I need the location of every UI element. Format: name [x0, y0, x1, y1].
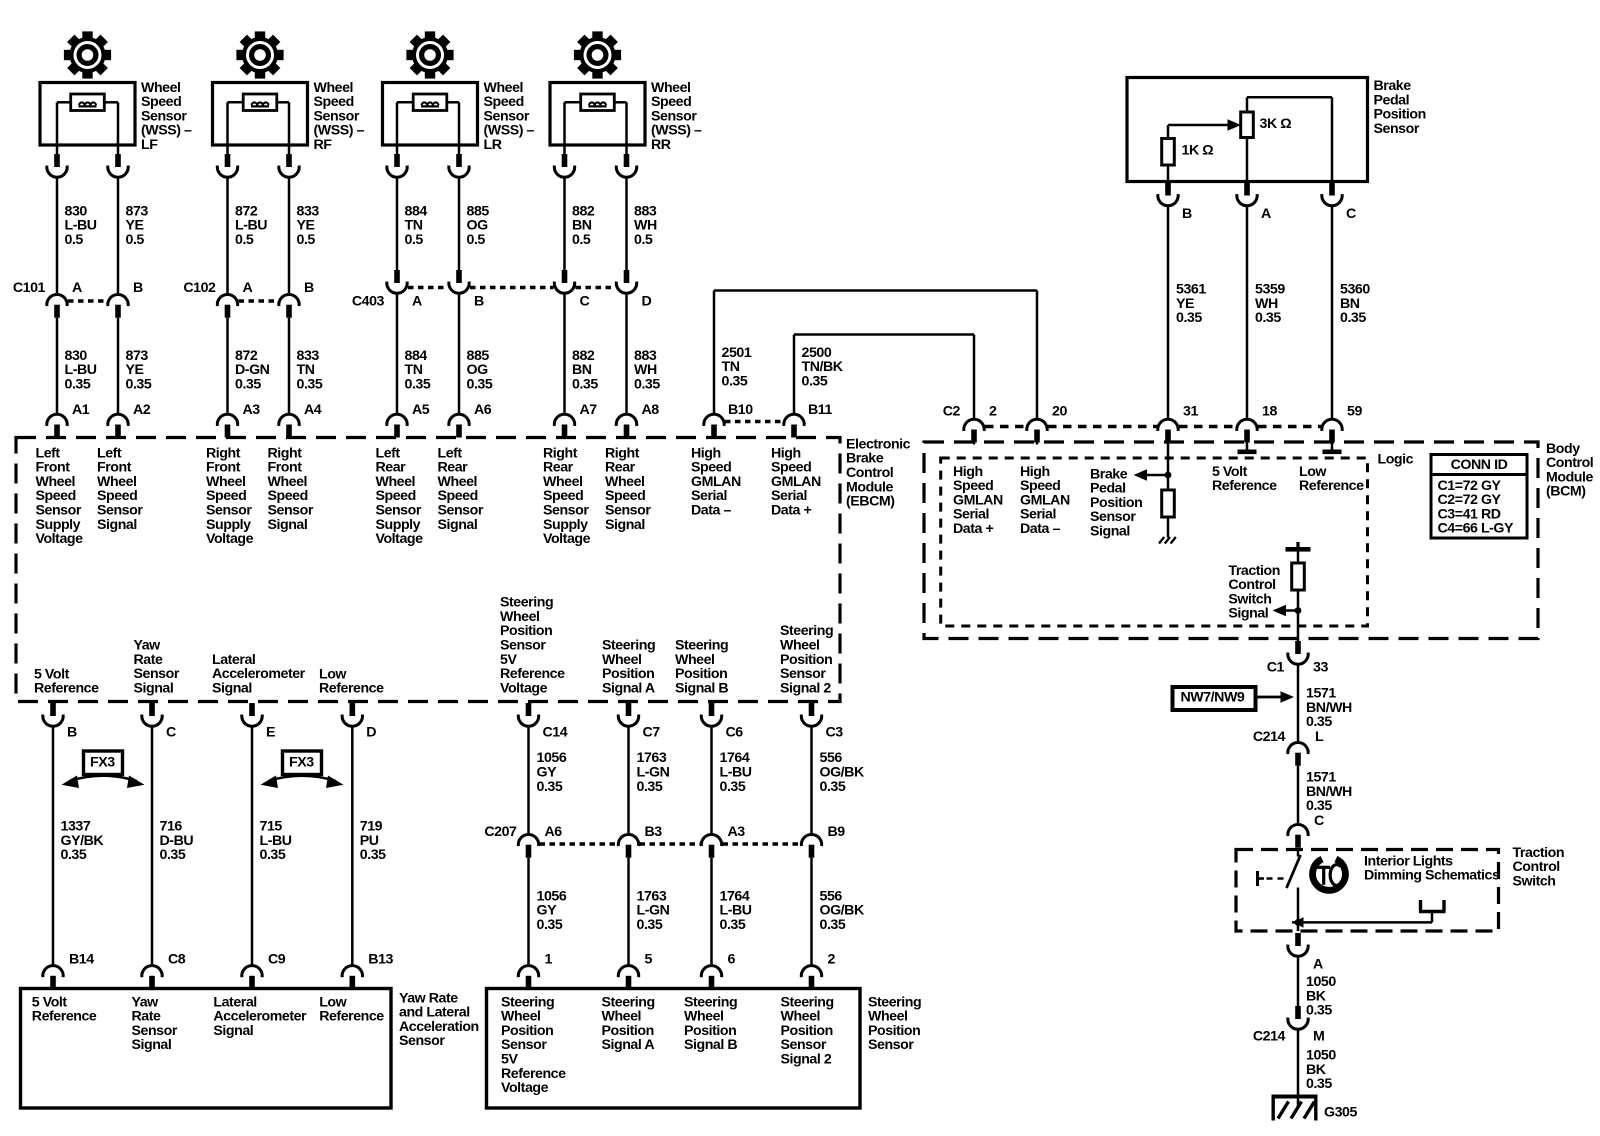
svg-text:Voltage: Voltage: [206, 531, 254, 547]
svg-text:C14: C14: [543, 724, 568, 740]
svg-text:A7: A7: [580, 402, 598, 418]
svg-text:B10: B10: [728, 402, 753, 418]
svg-text:M: M: [1313, 1029, 1324, 1045]
svg-text:A6: A6: [474, 402, 492, 418]
svg-text:Switch: Switch: [1513, 873, 1556, 889]
svg-text:Data +: Data +: [771, 503, 811, 519]
svg-text:0.35: 0.35: [1306, 714, 1332, 730]
svg-text:A6: A6: [545, 824, 563, 840]
svg-text:33: 33: [1313, 660, 1328, 676]
svg-text:20: 20: [1052, 403, 1067, 419]
svg-text:0.35: 0.35: [720, 779, 746, 795]
svg-text:Voltage: Voltage: [543, 531, 591, 547]
svg-text:A8: A8: [642, 402, 660, 418]
svg-text:0.35: 0.35: [360, 847, 386, 863]
svg-text:Signal: Signal: [438, 517, 478, 533]
svg-text:E: E: [266, 724, 275, 740]
svg-text:C1: C1: [1267, 660, 1285, 676]
svg-text:0.5: 0.5: [65, 232, 84, 248]
svg-text:C6: C6: [726, 724, 744, 740]
svg-text:C403: C403: [352, 293, 385, 309]
svg-text:B: B: [67, 724, 77, 740]
svg-text:Reference: Reference: [32, 1009, 97, 1025]
svg-text:0.35: 0.35: [61, 847, 87, 863]
svg-text:Data +: Data +: [953, 521, 993, 537]
svg-text:0.5: 0.5: [235, 232, 254, 248]
svg-text:B13: B13: [368, 951, 393, 967]
svg-text:0.35: 0.35: [722, 373, 748, 389]
svg-text:Signal: Signal: [605, 517, 645, 533]
svg-text:FX3: FX3: [90, 754, 115, 770]
svg-text:B: B: [304, 280, 314, 296]
svg-text:CONN ID: CONN ID: [1451, 457, 1508, 473]
svg-text:A5: A5: [412, 402, 430, 418]
svg-text:0.35: 0.35: [405, 376, 431, 392]
svg-text:Signal A: Signal A: [602, 1037, 655, 1053]
svg-text:A3: A3: [728, 824, 746, 840]
svg-text:C8: C8: [168, 951, 186, 967]
svg-text:(EBCM): (EBCM): [846, 494, 895, 510]
svg-text:C101: C101: [13, 280, 46, 296]
svg-text:0.5: 0.5: [634, 232, 653, 248]
svg-text:RR: RR: [651, 137, 671, 153]
svg-text:A3: A3: [243, 402, 261, 418]
svg-text:Logic: Logic: [1378, 451, 1414, 467]
svg-text:Voltage: Voltage: [500, 680, 548, 696]
svg-text:59: 59: [1347, 403, 1362, 419]
svg-text:0.35: 0.35: [820, 917, 846, 933]
svg-text:0.35: 0.35: [1255, 310, 1281, 326]
svg-text:C: C: [580, 293, 590, 309]
svg-text:C7: C7: [643, 724, 661, 740]
svg-text:0.35: 0.35: [537, 917, 563, 933]
svg-text:Data –: Data –: [1020, 521, 1060, 537]
svg-text:A: A: [243, 280, 253, 296]
svg-text:C207: C207: [484, 824, 517, 840]
svg-text:Signal 2: Signal 2: [780, 680, 831, 696]
svg-text:Reference: Reference: [34, 681, 99, 697]
svg-text:B: B: [474, 293, 484, 309]
svg-text:0.5: 0.5: [405, 232, 424, 248]
svg-text:0.35: 0.35: [1340, 310, 1366, 326]
svg-text:0.5: 0.5: [297, 232, 316, 248]
svg-text:Voltage: Voltage: [501, 1080, 549, 1096]
svg-text:C2: C2: [943, 403, 961, 419]
svg-text:Reference: Reference: [319, 681, 384, 697]
svg-text:NW7/NW9: NW7/NW9: [1181, 690, 1245, 706]
svg-text:Signal B: Signal B: [675, 680, 728, 696]
svg-text:B: B: [133, 280, 143, 296]
svg-text:Dimming Schematics: Dimming Schematics: [1364, 868, 1500, 884]
svg-text:B3: B3: [645, 824, 663, 840]
svg-text:Reference: Reference: [1212, 478, 1277, 494]
svg-text:31: 31: [1183, 403, 1198, 419]
svg-text:Voltage: Voltage: [36, 531, 84, 547]
svg-text:Signal: Signal: [268, 517, 308, 533]
svg-text:C4=66 L-GY: C4=66 L-GY: [1438, 521, 1515, 537]
svg-text:Sensor: Sensor: [399, 1033, 445, 1049]
svg-text:0.35: 0.35: [126, 376, 152, 392]
svg-text:Signal 2: Signal 2: [781, 1052, 832, 1068]
svg-text:0.35: 0.35: [820, 779, 846, 795]
svg-text:0.35: 0.35: [1306, 798, 1332, 814]
svg-text:Signal: Signal: [97, 517, 137, 533]
svg-text:D: D: [366, 724, 376, 740]
svg-text:0.35: 0.35: [637, 779, 663, 795]
svg-text:C102: C102: [183, 280, 216, 296]
svg-text:0.35: 0.35: [260, 847, 286, 863]
svg-text:L: L: [1315, 729, 1324, 745]
svg-text:2: 2: [989, 403, 997, 419]
svg-text:0.35: 0.35: [65, 376, 91, 392]
svg-text:C9: C9: [268, 951, 286, 967]
svg-text:B14: B14: [69, 951, 94, 967]
svg-text:0.35: 0.35: [1176, 310, 1202, 326]
svg-text:A: A: [412, 293, 422, 309]
svg-text:0.35: 0.35: [160, 847, 186, 863]
svg-text:5: 5: [645, 951, 653, 967]
svg-text:0.35: 0.35: [637, 917, 663, 933]
svg-text:6: 6: [728, 951, 736, 967]
svg-text:RF: RF: [314, 137, 333, 153]
svg-text:0.35: 0.35: [1306, 1076, 1332, 1092]
svg-text:C214: C214: [1253, 1029, 1286, 1045]
svg-text:Signal B: Signal B: [684, 1037, 737, 1053]
svg-text:Data –: Data –: [691, 503, 731, 519]
svg-text:C: C: [166, 724, 176, 740]
svg-text:0.5: 0.5: [572, 232, 591, 248]
svg-text:FX3: FX3: [289, 754, 314, 770]
svg-text:Signal: Signal: [134, 680, 174, 696]
svg-text:C3: C3: [826, 724, 844, 740]
svg-text:Signal: Signal: [1228, 606, 1268, 622]
svg-text:0.35: 0.35: [634, 376, 660, 392]
svg-text:0.5: 0.5: [126, 232, 145, 248]
svg-text:0.35: 0.35: [572, 376, 598, 392]
svg-text:G305: G305: [1324, 1105, 1357, 1121]
svg-text:0.35: 0.35: [720, 917, 746, 933]
svg-text:D: D: [642, 293, 652, 309]
svg-text:Voltage: Voltage: [376, 531, 424, 547]
svg-text:Sensor: Sensor: [1374, 121, 1420, 137]
svg-text:Reference: Reference: [319, 1009, 384, 1025]
svg-text:Signal: Signal: [1090, 524, 1130, 540]
svg-text:(BCM): (BCM): [1546, 484, 1586, 500]
svg-text:Signal: Signal: [212, 680, 252, 696]
svg-text:0.35: 0.35: [297, 376, 323, 392]
svg-text:LF: LF: [141, 137, 158, 153]
svg-text:1K Ω: 1K Ω: [1182, 142, 1214, 158]
svg-text:3K Ω: 3K Ω: [1260, 116, 1292, 132]
svg-text:Signal A: Signal A: [602, 680, 655, 696]
svg-text:A4: A4: [304, 402, 322, 418]
svg-text:Signal: Signal: [213, 1023, 253, 1039]
svg-text:1: 1: [545, 951, 553, 967]
svg-text:B: B: [1182, 206, 1192, 222]
svg-text:A: A: [72, 280, 82, 296]
svg-text:C: C: [1346, 206, 1356, 222]
svg-text:C: C: [1314, 813, 1324, 829]
svg-text:A: A: [1261, 206, 1271, 222]
svg-text:2: 2: [828, 951, 836, 967]
svg-text:18: 18: [1262, 403, 1277, 419]
svg-text:Sensor: Sensor: [868, 1037, 914, 1053]
svg-text:A: A: [1313, 956, 1323, 972]
svg-text:Reference: Reference: [1299, 478, 1364, 494]
svg-text:0.35: 0.35: [235, 376, 261, 392]
svg-text:B11: B11: [808, 402, 832, 418]
svg-text:Signal: Signal: [132, 1037, 172, 1053]
svg-text:C214: C214: [1253, 729, 1286, 745]
svg-text:A2: A2: [133, 402, 151, 418]
svg-text:0.35: 0.35: [467, 376, 493, 392]
svg-text:A1: A1: [72, 402, 90, 418]
svg-text:0.5: 0.5: [467, 232, 486, 248]
svg-text:0.35: 0.35: [1306, 1003, 1332, 1019]
svg-text:0.35: 0.35: [802, 373, 828, 389]
svg-text:LR: LR: [484, 137, 502, 153]
svg-text:0.35: 0.35: [537, 779, 563, 795]
svg-text:B9: B9: [828, 824, 846, 840]
